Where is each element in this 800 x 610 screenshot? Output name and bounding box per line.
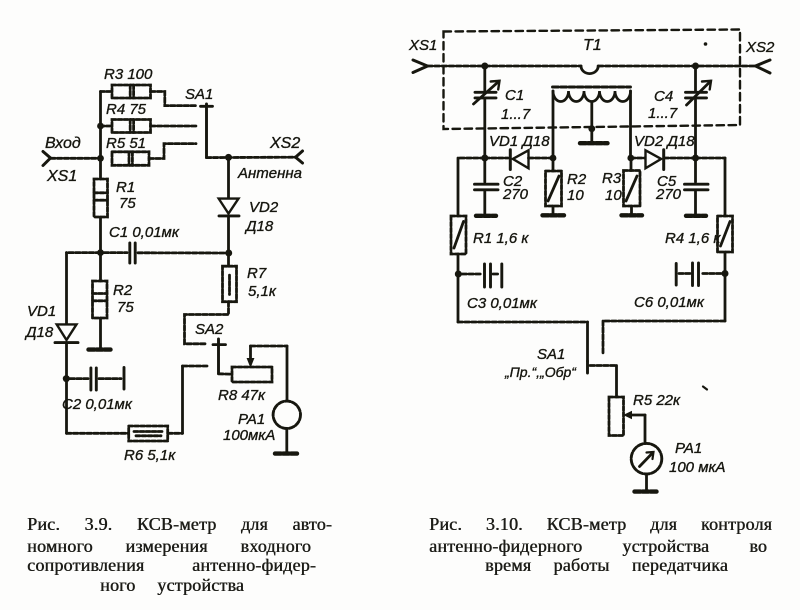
svg-text:Вход: Вход bbox=[45, 135, 81, 152]
svg-text:PA1: PA1 bbox=[675, 440, 702, 457]
potentiometer R5 wiper arrow bbox=[624, 412, 645, 444]
diode VD2 (right) bbox=[631, 150, 696, 170]
svg-text:T1: T1 bbox=[583, 37, 602, 54]
wire left branch to SA1 pole bbox=[458, 322, 588, 361]
capacitor C5 bbox=[685, 158, 709, 214]
node VD2 right junction bbox=[692, 155, 699, 162]
svg-text:75: 75 bbox=[117, 299, 134, 316]
wire R1 down bbox=[457, 254, 460, 322]
diode VD2 bbox=[219, 199, 239, 216]
wire R5 to SA1 contact 3 bbox=[149, 144, 196, 159]
wire VD1 down left branch bbox=[65, 343, 68, 434]
inductor winding L bbox=[553, 91, 631, 102]
svg-text:C4: C4 bbox=[654, 88, 673, 105]
caption figure 3.9 line 3 bbox=[27, 555, 316, 576]
svg-text:XS1: XS1 bbox=[408, 37, 437, 54]
svg-text:100 мкА: 100 мкА bbox=[669, 459, 726, 476]
svg-text:„Пр.“,„Обр“: „Пр.“,„Обр“ bbox=[504, 364, 577, 380]
connector XS1 (Вход) bbox=[43, 152, 51, 166]
wire coil right end bbox=[629, 91, 632, 158]
node antenna junction bbox=[225, 154, 232, 161]
wire R1 to node bbox=[99, 217, 102, 281]
svg-text:PA1: PA1 bbox=[238, 411, 265, 428]
ground (R3 right) bbox=[622, 213, 643, 217]
wire R4 to SA1 contact 2 bbox=[151, 125, 197, 128]
meter PA1 bbox=[273, 401, 300, 428]
connector XS1 bbox=[413, 60, 428, 73]
svg-text:100мкА: 100мкА bbox=[223, 427, 275, 444]
caption figure 3.10 line 2 bbox=[429, 536, 767, 557]
svg-text:R4 75: R4 75 bbox=[106, 101, 147, 118]
connector XS2 bbox=[756, 60, 771, 73]
svg-text:5,1к: 5,1к bbox=[248, 283, 277, 300]
wire meter to ground (right) bbox=[645, 474, 648, 490]
transformer T1 dashed box bbox=[444, 30, 741, 130]
node C3 junction bbox=[455, 271, 462, 278]
svg-text:R3 100: R3 100 bbox=[104, 66, 153, 83]
wire SA1 arm to R5 bbox=[615, 366, 618, 398]
svg-text:R5 22к: R5 22к bbox=[633, 392, 681, 409]
resistor R3 bbox=[101, 85, 151, 98]
wire R8 wiper to meter bbox=[251, 346, 288, 401]
svg-text:R3: R3 bbox=[602, 170, 622, 187]
svg-text:75: 75 bbox=[119, 195, 136, 212]
switch SA2 arm bbox=[213, 339, 226, 374]
caption figure 3.10 line 1 bbox=[429, 514, 772, 535]
svg-text:R7: R7 bbox=[247, 265, 267, 282]
wire antenna to VD2 bbox=[227, 157, 230, 198]
ground (C5) bbox=[686, 214, 706, 218]
svg-text:C2 0,01мк: C2 0,01мк bbox=[62, 396, 133, 413]
ground (C2 right) bbox=[476, 214, 496, 218]
wire input to R1 bbox=[99, 158, 102, 179]
wire R4 down bbox=[724, 252, 727, 321]
wire antenna line bbox=[207, 156, 296, 159]
svg-text:10: 10 bbox=[605, 187, 622, 204]
svg-text:R1: R1 bbox=[116, 179, 135, 196]
wire meter to ground bbox=[285, 429, 288, 453]
caption figure 3.10 line 3 bbox=[485, 555, 728, 576]
resistor R2 (right) bbox=[546, 158, 562, 213]
capacitor C3 bbox=[462, 264, 502, 287]
svg-text:R5 51: R5 51 bbox=[106, 135, 146, 152]
wire R2 to ground bbox=[99, 318, 102, 348]
switch SA1 arm bbox=[201, 104, 213, 158]
svg-text:VD1 Д18: VD1 Д18 bbox=[489, 133, 550, 150]
svg-text:VD1: VD1 bbox=[27, 303, 56, 320]
svg-text:Антенна: Антенна bbox=[237, 165, 302, 182]
wire R4 branch top bbox=[696, 158, 726, 216]
wire C1 node to left branch bbox=[67, 253, 101, 324]
svg-text:10: 10 bbox=[567, 187, 584, 204]
svg-text:270: 270 bbox=[655, 186, 682, 203]
node coil right junction bbox=[627, 155, 634, 162]
svg-text:SA1: SA1 bbox=[537, 346, 565, 363]
node main-C4 junction bbox=[692, 63, 699, 70]
wire right branch to SA1 contact bbox=[603, 321, 725, 353]
wire bottom loop bbox=[67, 432, 129, 435]
node main-C1 junction bbox=[481, 63, 488, 70]
svg-text:Д18: Д18 bbox=[244, 218, 274, 235]
caption figure 3.9 line 1 bbox=[27, 514, 332, 535]
transformer core bar bbox=[553, 86, 631, 89]
ground (center tap) bbox=[580, 141, 608, 145]
connector XS2 (Антенна) bbox=[296, 151, 303, 163]
resistor R1 (right) bbox=[451, 216, 466, 254]
svg-text:XS1: XS1 bbox=[46, 168, 77, 185]
svg-text:1...7: 1...7 bbox=[501, 106, 531, 123]
wire coil left end bbox=[552, 91, 555, 158]
svg-text:R8 47к: R8 47к bbox=[218, 387, 266, 404]
node input junction bbox=[97, 155, 104, 162]
svg-text:C1: C1 bbox=[505, 87, 524, 104]
node C1 left junction bbox=[97, 249, 104, 256]
svg-text:C3 0,01мк: C3 0,01мк bbox=[467, 295, 538, 312]
wire R3 to SA1 contact 1 bbox=[151, 92, 197, 106]
resistor R4 (right) bbox=[718, 216, 733, 252]
svg-text:R1 1,6 к: R1 1,6 к bbox=[473, 230, 529, 247]
svg-text:R2: R2 bbox=[113, 282, 133, 299]
resistor R5 bbox=[112, 152, 149, 166]
svg-text:1...7: 1...7 bbox=[648, 105, 678, 122]
capacitor C2 bbox=[70, 368, 124, 391]
diode VD1 (right) bbox=[485, 150, 553, 170]
wire input bbox=[51, 157, 102, 160]
node bus-R4 junction bbox=[97, 123, 104, 130]
capacitor C2 (right) bbox=[475, 158, 499, 214]
svg-text:C1 0,01мк: C1 0,01мк bbox=[109, 224, 180, 241]
node C2 junction bbox=[63, 375, 70, 382]
potentiometer R8 wiper arrow bbox=[247, 346, 253, 367]
node C6 junction bbox=[722, 270, 729, 277]
capacitor C1 bbox=[104, 243, 229, 263]
capacitor C6 bbox=[676, 263, 721, 286]
node C1 right junction bbox=[225, 250, 232, 257]
wire SA2 arm to R8 bbox=[219, 372, 233, 375]
resistor R2 bbox=[93, 281, 108, 318]
meter PA1 (right) bbox=[631, 443, 662, 474]
ground (meter right) bbox=[635, 489, 658, 493]
svg-text:Д18: Д18 bbox=[24, 324, 54, 341]
svg-text:VD2 Д18: VD2 Д18 bbox=[634, 133, 695, 150]
ground (R2 right) bbox=[543, 213, 565, 217]
svg-text:C6 0,01мк: C6 0,01мк bbox=[634, 294, 705, 311]
variable capacitor C4 bbox=[686, 66, 712, 158]
wire main line right bbox=[598, 65, 755, 68]
node VD1 left junction bbox=[481, 155, 488, 162]
resistor R4 bbox=[101, 120, 151, 133]
svg-text:R4 1,6 к: R4 1,6 к bbox=[665, 230, 721, 247]
svg-text:XS2: XS2 bbox=[745, 39, 775, 56]
svg-text:270: 270 bbox=[502, 186, 529, 203]
potentiometer R8 bbox=[232, 367, 272, 382]
svg-text:R2: R2 bbox=[567, 171, 587, 188]
variable capacitor C1 bbox=[474, 66, 500, 158]
node center tap on box edge bbox=[588, 125, 595, 132]
resistor R7 bbox=[223, 266, 237, 302]
stray dot bbox=[704, 42, 708, 46]
switch SA1 (right) bbox=[588, 361, 617, 373]
stray mark bbox=[703, 387, 707, 390]
wire R6 to SA2 lower contact bbox=[168, 366, 207, 433]
caption figure 3.9 line 4 bbox=[100, 575, 244, 596]
svg-text:SA2: SA2 bbox=[195, 321, 224, 338]
resistor R5 (right) bbox=[609, 397, 624, 436]
svg-text:XS2: XS2 bbox=[269, 135, 300, 152]
resistor R3 (right) bbox=[624, 158, 641, 213]
wire center tap bbox=[590, 102, 593, 142]
wire main line hop bbox=[581, 66, 598, 74]
ground (meter PA1) bbox=[275, 451, 299, 455]
ground (R2) bbox=[89, 347, 111, 351]
svg-text:SA1: SA1 bbox=[185, 86, 213, 103]
wire main line left bbox=[428, 65, 582, 68]
caption figure 3.9 line 2 bbox=[27, 536, 311, 557]
wire R7 to SA2 upper contact bbox=[185, 302, 229, 344]
wire VD1 node to R1 branch bbox=[458, 158, 485, 216]
wire VD2 to R7 bbox=[227, 216, 230, 266]
node coil left junction bbox=[550, 155, 557, 162]
wire left bus bbox=[99, 92, 102, 159]
resistor R1 bbox=[94, 179, 108, 217]
resistor R6 bbox=[129, 426, 168, 441]
svg-text:VD2: VD2 bbox=[249, 199, 279, 216]
diode VD1 bbox=[55, 324, 78, 342]
svg-text:R6 5,1к: R6 5,1к bbox=[124, 447, 176, 464]
